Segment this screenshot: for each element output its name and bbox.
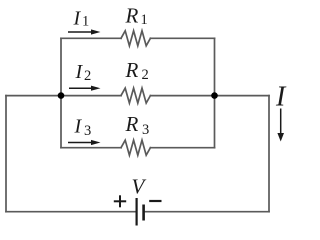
resistor R1 [121, 31, 150, 46]
wire middle branch left segment [6, 95, 121, 97]
svg-text:3: 3 [84, 123, 91, 139]
svg-text:1: 1 [82, 14, 89, 30]
svg-text:I: I [75, 61, 84, 83]
wire right inner vertical [214, 38, 216, 147]
label battery minus sign [149, 200, 161, 202]
wire top branch left segment [61, 37, 121, 39]
svg-text:I: I [73, 7, 82, 29]
wire bottom right segment [144, 211, 269, 213]
wire bottom branch right segment [150, 147, 214, 149]
resistor R2 [121, 88, 150, 103]
wire bottom branch left segment [61, 147, 121, 149]
node junction right [211, 92, 218, 99]
wire top branch right segment [150, 37, 214, 39]
svg-text:1: 1 [141, 12, 148, 28]
arrow I3 [68, 140, 101, 145]
svg-text:I: I [275, 82, 287, 113]
svg-text:R: R [125, 4, 139, 28]
arrow I downward [277, 109, 284, 142]
resistor R3 [121, 140, 150, 155]
wire right outer vertical [268, 96, 270, 212]
wire bottom left segment [6, 211, 137, 213]
svg-text:R: R [125, 58, 139, 82]
svg-text:R: R [125, 112, 139, 136]
node junction left [58, 92, 65, 99]
label battery plus sign [114, 195, 126, 207]
svg-text:3: 3 [142, 122, 149, 138]
svg-text:2: 2 [142, 67, 149, 83]
battery V positive plate [136, 198, 138, 226]
svg-text:I: I [74, 116, 83, 138]
svg-text:2: 2 [84, 68, 91, 84]
wire middle branch right segment [150, 95, 269, 97]
arrow I2 [69, 86, 101, 91]
wire left inner vertical [60, 38, 62, 147]
arrow I1 [68, 29, 101, 34]
wire left outer vertical [5, 96, 7, 212]
svg-text:V: V [132, 175, 147, 199]
battery V negative plate [142, 205, 145, 221]
